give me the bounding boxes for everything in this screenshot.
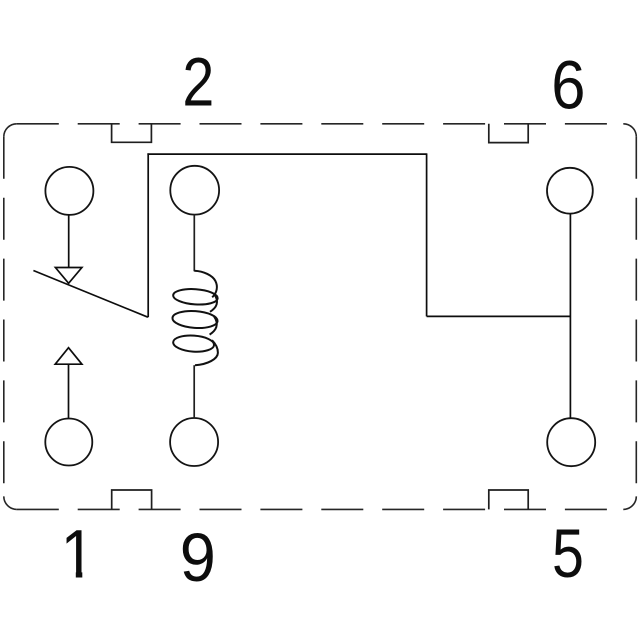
relay case outline (dashed rounded rectangle) — [4, 124, 637, 510]
case notch bottom-left — [112, 490, 152, 509]
case notch top-left — [112, 124, 152, 143]
relay coil K1 (spring symbol) — [172, 271, 218, 365]
wire: riser from blade to top wire — [147, 153, 149, 317]
svg-text:6: 6 — [551, 47, 585, 124]
wire: stem from NO arrow down to pin 1 — [68, 364, 70, 418]
wire: stem from top-left pin down to NC contact arrow — [68, 214, 70, 267]
pin 6 circle — [547, 168, 593, 214]
pin 5 circle — [547, 418, 595, 466]
svg-text:1: 1 — [61, 516, 95, 593]
svg-text:9: 9 — [180, 521, 216, 597]
case notch bottom-right — [489, 490, 528, 509]
switch blade (movable contact) — [33, 271, 147, 318]
pin 1 circle — [45, 419, 92, 466]
wire: middle riser — [426, 153, 428, 316]
wire: middle horizontal run to right bus — [427, 315, 571, 317]
NC contact arrow (open triangle pointing down) — [55, 268, 82, 284]
wire: stem from pin 2 down to coil — [193, 214, 195, 271]
wire: top horizontal run — [147, 153, 426, 155]
pin circle top-left (movable contact pin) — [45, 167, 93, 215]
pin 9 circle (coil bottom) — [170, 418, 218, 466]
NO contact arrow (open triangle pointing up) — [55, 348, 82, 365]
case notch top-right — [489, 124, 528, 143]
svg-text:2: 2 — [182, 45, 214, 121]
svg-text:5: 5 — [552, 516, 584, 592]
wire: stem from coil down to pin 9 — [193, 365, 195, 418]
pin 2 circle (coil top) — [170, 166, 219, 215]
wire: right bus between pin 6 and pin 5 — [569, 213, 571, 418]
